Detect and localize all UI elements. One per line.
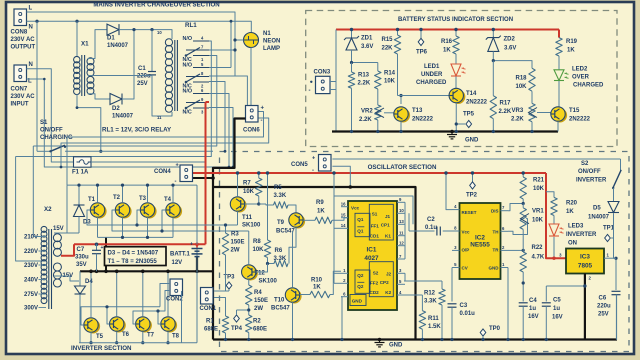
svg-text:R8: R8 <box>253 239 261 245</box>
oscillator red supply bus <box>206 170 547 173</box>
svg-text:R20: R20 <box>566 201 578 207</box>
wire D1 out to relay coil <box>119 30 172 39</box>
svg-text:12: 12 <box>399 241 404 246</box>
inverter collector rail <box>67 184 197 186</box>
svg-text:D3 – D4 = 1N5407: D3 – D4 = 1N5407 <box>108 250 159 257</box>
svg-text:Q1: Q1 <box>357 217 364 222</box>
wire charging red from relay pin 9 <box>206 101 210 103</box>
wire C1 bottom to relay coil bottom <box>152 76 172 117</box>
ground symbol battery section <box>451 132 453 135</box>
svg-text:CP2: CP2 <box>380 280 389 285</box>
svg-text:VR2: VR2 <box>361 109 373 115</box>
svg-text:X2: X2 <box>44 206 52 213</box>
wire VR3 wiper to T15 base <box>537 113 551 115</box>
wire D5 to IC3 output node <box>614 214 617 259</box>
svg-text:INPUT: INPUT <box>11 102 29 108</box>
battery negative bus <box>80 270 213 272</box>
svg-text:275V: 275V <box>24 292 38 298</box>
svg-text:TH: TH <box>493 229 499 234</box>
svg-text:CON3: CON3 <box>314 70 331 76</box>
svg-text:TP5: TP5 <box>463 112 475 118</box>
svg-text:SK100: SK100 <box>259 279 278 285</box>
svg-text:15: 15 <box>341 213 346 218</box>
node N junction 1 <box>35 20 38 23</box>
diode D2 <box>110 94 122 105</box>
svg-text:DIS: DIS <box>491 209 499 214</box>
svg-text:-: - <box>261 118 263 124</box>
wire T10 collector <box>292 231 294 288</box>
svg-text:+: + <box>190 241 193 247</box>
inverter lower emitter rail <box>79 342 197 344</box>
wire T9 emitter to R6 <box>289 227 296 263</box>
svg-text:1u: 1u <box>553 306 560 312</box>
svg-text:210V: 210V <box>24 235 38 241</box>
svg-text:240V: 240V <box>24 278 38 284</box>
wire battery negative <box>196 257 198 271</box>
svg-text:UNDER: UNDER <box>421 72 443 78</box>
svg-text:R2: R2 <box>253 319 261 325</box>
wire T13 collector to T14 base <box>398 95 450 97</box>
wire IC3 output <box>604 257 616 259</box>
svg-text:1K: 1K <box>317 209 325 215</box>
svg-text:ON/OFF: ON/OFF <box>40 128 63 134</box>
svg-text:T12: T12 <box>255 271 266 277</box>
svg-text:OVER: OVER <box>572 75 590 81</box>
resistor R21 <box>522 173 524 177</box>
wires T5-T8 emitters <box>90 332 92 343</box>
svg-text:R9: R9 <box>316 200 324 206</box>
svg-text:BC547: BC547 <box>271 306 290 312</box>
svg-text:R16: R16 <box>441 39 453 45</box>
svg-text:R22: R22 <box>532 245 544 251</box>
wire red to X2 center tap <box>61 244 74 255</box>
svg-text:2W: 2W <box>254 306 263 312</box>
svg-text:FF1: FF1 <box>371 224 380 229</box>
svg-text:T10: T10 <box>274 298 285 304</box>
svg-text:CON1: CON1 <box>200 306 217 312</box>
svg-text:D4: D4 <box>85 279 93 285</box>
wire IC2 TH to VR1 wiper <box>508 219 528 235</box>
svg-text:3.3K: 3.3K <box>424 299 437 305</box>
wire to S1 <box>37 150 51 152</box>
svg-text:4027: 4027 <box>364 255 379 262</box>
wire IC3 ground <box>584 274 586 340</box>
svg-text:-: - <box>175 179 177 185</box>
svg-text:R3: R3 <box>231 232 239 238</box>
battery BATT.1 <box>196 244 198 247</box>
connector CON7 <box>14 65 27 82</box>
svg-text:IC3: IC3 <box>580 254 590 261</box>
svg-text:1N4007: 1N4007 <box>112 114 134 120</box>
resistor R18 <box>529 68 535 91</box>
connector CON6 <box>246 106 259 123</box>
svg-text:R12: R12 <box>424 291 436 297</box>
svg-text:T5: T5 <box>96 334 104 340</box>
wire CON4 negative <box>193 177 214 179</box>
wire T10 emitter <box>292 302 294 339</box>
svg-text:15V: 15V <box>53 226 64 232</box>
svg-text:3.6V: 3.6V <box>504 46 516 52</box>
svg-text:F1 1A: F1 1A <box>72 170 89 176</box>
connector CON1 <box>201 288 214 305</box>
svg-text:C6: C6 <box>599 296 607 302</box>
wire LED3 to IC3 input <box>553 237 555 258</box>
svg-text:ZD2: ZD2 <box>504 37 516 43</box>
wire T14 emitter TP5 <box>455 103 457 132</box>
wire IC2 GND to bus <box>507 268 509 340</box>
connector CON5 <box>319 155 332 172</box>
inverter box right edge wire <box>196 185 198 343</box>
svg-text:SK100: SK100 <box>242 223 261 229</box>
wire N to X1 primary <box>76 21 78 57</box>
capacitor C4 <box>519 302 528 304</box>
svg-text:LED2: LED2 <box>572 67 588 73</box>
wire red to CON4 <box>193 172 206 174</box>
svg-text:R10: R10 <box>311 278 323 284</box>
svg-text:7805: 7805 <box>578 263 593 270</box>
svg-text:R17: R17 <box>500 101 512 107</box>
svg-text:INVERTER: INVERTER <box>576 178 607 184</box>
resistor R4 <box>246 285 252 305</box>
svg-text:Vcc: Vcc <box>462 229 471 234</box>
wire X2 bottom tap to D4 <box>54 276 79 281</box>
neon lamp N1 <box>244 33 259 48</box>
wire VR2 wiper to T13 base <box>384 112 394 114</box>
svg-text:3.3K: 3.3K <box>274 193 287 199</box>
transistor T4 <box>168 204 182 218</box>
wire red bus to IC3 <box>546 173 566 258</box>
svg-text:CP1: CP1 <box>381 223 390 228</box>
IC2 pin stubs <box>452 209 460 211</box>
battery section red bus <box>336 29 559 31</box>
svg-text:680E: 680E <box>204 327 218 333</box>
battery section ground rail <box>332 130 558 132</box>
svg-text:1.5K: 1.5K <box>428 324 441 330</box>
wire T12 collector to line B <box>248 231 250 265</box>
resistor R2 <box>246 315 252 333</box>
svg-text:GND: GND <box>389 343 403 349</box>
svg-text:+: + <box>101 245 104 251</box>
diode D3 <box>78 185 80 205</box>
svg-text:R19: R19 <box>566 39 578 45</box>
svg-text:1N4007: 1N4007 <box>107 43 129 49</box>
wire T12 emitter chain R4 R2 <box>248 279 250 285</box>
wire IC2 CV to C3 <box>451 268 453 302</box>
transistor T9 <box>291 214 305 228</box>
wires CON3 <box>330 81 336 83</box>
svg-text:N: N <box>29 25 33 31</box>
wire N to S1 <box>36 21 38 151</box>
wires T1-T4 emitters <box>97 217 99 237</box>
zener ZD1 <box>351 30 353 39</box>
svg-text:S2: S2 <box>581 161 589 167</box>
svg-text:RL1: RL1 <box>185 22 197 29</box>
svg-text:LED1: LED1 <box>424 64 440 70</box>
svg-text:CON2: CON2 <box>166 297 183 303</box>
svg-text:4.7K: 4.7K <box>532 255 545 261</box>
test point TP0 <box>480 329 486 336</box>
svg-text:R1: R1 <box>206 319 214 325</box>
node N junction 2 <box>75 20 78 23</box>
svg-text:2.2K: 2.2K <box>499 109 512 115</box>
transistor T2 <box>117 204 131 218</box>
svg-text:TP4: TP4 <box>231 326 243 332</box>
wires CON2 <box>160 284 170 307</box>
wire CON6 negative loop to bundle <box>61 118 269 167</box>
inverter emitter rail <box>98 236 174 238</box>
svg-text:C2: C2 <box>427 217 435 223</box>
wire C1 bottom to X1 center tap <box>88 74 153 77</box>
svg-text:ON/OFF: ON/OFF <box>578 169 601 175</box>
svg-text:INVERTER SECTION: INVERTER SECTION <box>71 345 132 352</box>
svg-text:14: 14 <box>341 223 346 228</box>
svg-text:GND: GND <box>489 266 500 271</box>
svg-text:CON4: CON4 <box>154 169 171 175</box>
wire T15 emitter <box>557 121 559 131</box>
svg-text:1u: 1u <box>529 306 536 312</box>
wire lamp left lead <box>235 39 244 41</box>
svg-text:C7: C7 <box>77 247 85 253</box>
transistor T7 <box>138 318 152 332</box>
wire ZD2 node <box>493 61 532 69</box>
capacitor C6 <box>615 258 617 290</box>
resistor R3 <box>225 225 227 233</box>
svg-text:T6: T6 <box>122 332 130 338</box>
svg-text:16V: 16V <box>528 314 539 320</box>
svg-text:22K: 22K <box>382 46 394 52</box>
svg-text:K1: K1 <box>385 234 391 239</box>
capacitor C2 <box>409 230 435 232</box>
svg-text:RL1 = 12V, 3C/O RELAY: RL1 = 12V, 3C/O RELAY <box>102 127 172 134</box>
wire T11 collector to drive line <box>237 211 239 225</box>
svg-text:R21: R21 <box>533 178 545 184</box>
diode D5 <box>608 202 619 213</box>
transistor T13 <box>396 108 410 122</box>
svg-text:L: L <box>29 6 33 12</box>
capacitor C5 <box>546 285 585 287</box>
inverter base drive line A <box>87 210 195 225</box>
svg-text:OSCILLATOR SECTION: OSCILLATOR SECTION <box>368 164 437 171</box>
svg-text:J1: J1 <box>385 214 391 219</box>
svg-text:CD2: CD2 <box>370 290 380 295</box>
inverter lower base line <box>81 307 160 325</box>
battery status indicator section box <box>306 11 617 147</box>
wire X1 secondary bottom to D2 <box>88 94 111 99</box>
svg-text:11: 11 <box>157 115 162 120</box>
node D1 out <box>150 28 153 31</box>
test point TP2 <box>472 173 474 182</box>
svg-text:16: 16 <box>341 202 346 207</box>
svg-text:J2: J2 <box>386 272 392 277</box>
svg-text:CD1: CD1 <box>370 234 380 239</box>
zener ZD2 <box>492 30 494 38</box>
svg-text:N/C: N/C <box>183 110 192 116</box>
wire IC2 reset to red bus <box>446 173 452 210</box>
svg-text:35V: 35V <box>76 262 87 268</box>
svg-text:25V: 25V <box>598 312 609 318</box>
svg-text:N1: N1 <box>263 31 271 37</box>
wire R15 to T13 collector <box>397 54 399 96</box>
svg-text:2W: 2W <box>231 248 240 254</box>
relay contact wires to bus <box>209 49 235 51</box>
svg-text:TP1: TP1 <box>603 226 615 232</box>
wire CON6 negative black <box>213 119 246 340</box>
svg-text:R18: R18 <box>516 76 528 82</box>
svg-text:CHARGING: CHARGING <box>40 135 73 141</box>
wire LED1 to T14 <box>455 77 457 89</box>
wires CON1 <box>214 290 229 292</box>
wire CON7 N <box>27 69 74 162</box>
svg-text:GND: GND <box>465 138 479 144</box>
wire X1 secondary top to D1 <box>88 30 108 59</box>
svg-text:INVERTER: INVERTER <box>566 232 597 238</box>
wire D2 out to top rail <box>122 30 134 99</box>
LED1 <box>455 54 457 64</box>
IC2 NE555 <box>460 203 501 279</box>
svg-text:330u: 330u <box>75 255 89 261</box>
wire CON7 L <box>27 79 230 167</box>
svg-text:RESET: RESET <box>462 210 477 215</box>
resistor R12 <box>404 280 442 282</box>
svg-text:T1 – T8 = 2N3055: T1 – T8 = 2N3055 <box>108 258 158 265</box>
svg-text:VR3: VR3 <box>512 108 524 114</box>
svg-text:1K: 1K <box>567 48 575 54</box>
svg-text:0.01u: 0.01u <box>460 311 476 317</box>
svg-text:S2: S2 <box>373 271 379 276</box>
svg-text:D1: D1 <box>107 36 115 42</box>
svg-text:10K: 10K <box>384 79 396 85</box>
svg-text:T11: T11 <box>242 215 253 221</box>
wire CON5 negative to battery negative <box>332 166 350 187</box>
svg-text:R4: R4 <box>254 290 262 296</box>
svg-text:T15: T15 <box>569 108 580 114</box>
wire CON5 positive to S2 <box>332 158 620 160</box>
wire tap feeds <box>33 236 46 238</box>
svg-text:ZD1: ZD1 <box>361 36 373 42</box>
svg-text:NEON: NEON <box>263 39 280 45</box>
oscillator section box <box>220 152 630 352</box>
svg-text:O/P: O/P <box>462 248 470 253</box>
wire T11 emitter to red bus <box>237 173 239 197</box>
svg-text:T3: T3 <box>139 196 147 202</box>
svg-text:+: + <box>312 156 315 162</box>
connector CON2 <box>170 279 183 296</box>
svg-text:R13: R13 <box>358 73 370 79</box>
transistor T10 <box>287 289 301 303</box>
svg-text:R11: R11 <box>428 316 439 322</box>
wire IC2 TR to R22 <box>508 249 523 251</box>
svg-text:10K: 10K <box>532 218 544 224</box>
svg-text:S1: S1 <box>40 120 48 126</box>
svg-text:230V AC: 230V AC <box>11 37 36 43</box>
resistor R13 <box>351 63 353 73</box>
svg-text:2.2K: 2.2K <box>358 81 371 87</box>
svg-text:10: 10 <box>157 30 162 35</box>
svg-text:T1: T1 <box>88 197 96 203</box>
svg-text:16V: 16V <box>552 315 563 321</box>
svg-text:2.2K: 2.2K <box>511 117 524 123</box>
svg-text:IC1: IC1 <box>367 247 377 254</box>
svg-text:220u: 220u <box>597 304 611 310</box>
wire T11 base node <box>245 203 259 205</box>
connector CON8 <box>14 9 27 26</box>
svg-text:TR: TR <box>493 248 500 253</box>
svg-text:2.2K: 2.2K <box>359 117 372 123</box>
wire red battery positive <box>74 243 206 245</box>
test point TP6 <box>420 30 422 39</box>
svg-text:C3: C3 <box>460 303 468 309</box>
svg-text:11: 11 <box>399 231 404 236</box>
svg-text:R6: R6 <box>275 248 283 254</box>
svg-text:0.1u: 0.1u <box>425 225 437 231</box>
svg-text:FF2: FF2 <box>370 281 379 286</box>
svg-text:2N2222: 2N2222 <box>412 117 434 123</box>
wire S1 to right <box>65 150 213 152</box>
svg-text:TP2: TP2 <box>466 193 478 199</box>
wire X1 primary bottom to S1 <box>77 94 101 151</box>
svg-text:MAINS INVERTER CHANGEOVER SECT: MAINS INVERTER CHANGEOVER SECTION <box>93 2 219 9</box>
wire R5 to T9 collector <box>288 205 296 213</box>
transistor T5 <box>86 319 100 333</box>
wire bundle to X2 area <box>32 146 34 237</box>
svg-text:1K: 1K <box>566 209 574 215</box>
svg-text:1K: 1K <box>313 285 321 291</box>
svg-text:TP6: TP6 <box>416 50 428 56</box>
svg-text:Q2: Q2 <box>357 273 364 278</box>
wire LED2 to T15 collector <box>558 81 560 107</box>
svg-text:Vcc: Vcc <box>351 206 360 211</box>
svg-text:GND: GND <box>352 298 363 303</box>
svg-text:S1: S1 <box>372 212 378 217</box>
wires T5-T8 collectors <box>90 271 92 317</box>
svg-text:T2: T2 <box>113 195 121 201</box>
note box <box>105 247 167 266</box>
LED3 <box>553 216 555 224</box>
svg-text:T9: T9 <box>277 220 285 226</box>
wire lamp bottom to CON6 <box>250 48 252 106</box>
svg-text:X1: X1 <box>81 41 89 48</box>
svg-text:25V: 25V <box>137 81 148 87</box>
transistor T12 <box>243 266 257 280</box>
svg-text:N: N <box>29 62 33 68</box>
svg-text:CON8: CON8 <box>11 30 28 36</box>
wire C1 top <box>151 30 153 72</box>
wires T1-T4 collectors <box>97 185 99 203</box>
svg-text:CHARGED: CHARGED <box>416 80 447 86</box>
svg-text:IC2: IC2 <box>475 235 485 242</box>
svg-text:CON6: CON6 <box>243 128 260 134</box>
svg-text:T4: T4 <box>164 197 172 203</box>
svg-text:10K: 10K <box>243 189 255 195</box>
wire T12 base <box>256 264 268 273</box>
svg-text:TP0: TP0 <box>489 326 501 332</box>
IC1 4027 <box>348 201 397 310</box>
wire inverter emitter to negative bus <box>105 237 107 271</box>
svg-text:10K: 10K <box>253 247 265 253</box>
transistor T3 <box>142 204 156 218</box>
transistor T14 <box>451 90 465 104</box>
svg-text:+: + <box>261 106 265 112</box>
svg-text:C5: C5 <box>553 298 561 304</box>
resistor R15 <box>397 30 399 36</box>
potentiometer VR3 <box>529 103 535 121</box>
transistor T8 <box>163 318 177 332</box>
wire black branch to oscillator <box>213 187 416 340</box>
connector CON4 <box>180 165 193 182</box>
wire F1 to right <box>91 161 206 163</box>
svg-text:Q2: Q2 <box>357 284 364 289</box>
ground bus <box>213 338 617 340</box>
